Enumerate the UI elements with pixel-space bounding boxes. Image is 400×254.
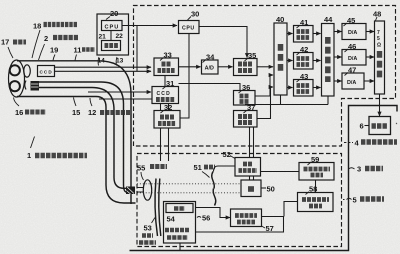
wire 57 to 58 junction: [262, 216, 285, 218]
svg-text:20: 20: [110, 9, 118, 18]
svg-text:17: 17: [1, 38, 9, 47]
dashed enclosure 5 light source unit: [137, 154, 342, 247]
box 36 noise reduction: [234, 91, 256, 106]
svg-text:33: 33: [164, 50, 172, 59]
wire branch down: [136, 26, 138, 72]
svg-text:1: 1: [27, 151, 31, 160]
wire 32 to 31 double: [161, 104, 169, 111]
box 46 D/A: [342, 50, 366, 66]
wire 31 to 36: [179, 84, 241, 91]
svg-text:31: 31: [166, 79, 174, 88]
svg-text:30: 30: [191, 9, 199, 18]
wire 58 to 57: [284, 202, 298, 217]
svg-text:22: 22: [116, 33, 124, 40]
svg-text:D/A: D/A: [348, 30, 357, 36]
optical axis dotted: [137, 183, 241, 185]
svg-text:19: 19: [50, 46, 58, 55]
condenser lens 55: [143, 180, 151, 200]
box 48 75ohm driver: [375, 21, 385, 94]
wire 30 to 35: [199, 27, 247, 58]
box 47 D/A: [342, 73, 364, 89]
svg-text:A/D: A/D: [205, 66, 214, 72]
wire feedback bus 40 44 to 36: [245, 95, 328, 105]
svg-text:21: 21: [99, 34, 107, 41]
svg-text:D/A: D/A: [347, 80, 356, 86]
wire 52 to lamp 50: [250, 176, 254, 180]
lamp box 50: [241, 180, 261, 197]
box 59 brightness control: [299, 163, 334, 181]
svg-text:41: 41: [300, 18, 308, 27]
CCD box: [38, 66, 55, 77]
svg-text:52: 52: [223, 150, 231, 159]
svg-text:3: 3: [357, 165, 361, 174]
box 40 selector: [274, 23, 287, 95]
box 34 A/D: [202, 60, 219, 74]
svg-text:5: 5: [353, 196, 357, 205]
wire 46 to 48: [366, 56, 374, 58]
svg-text:50: 50: [267, 185, 275, 194]
wire 45 to 48: [366, 31, 374, 33]
wire 37 to 40: [257, 87, 273, 119]
wire 44 to 47: [334, 80, 342, 82]
insertion tube inner bend: [17, 97, 136, 204]
wire aperture to 52: [214, 166, 236, 172]
svg-text:CPU: CPU: [105, 24, 120, 30]
wire 32 down to light source: [161, 128, 169, 161]
dashed enclosure 4 signal processing unit: [134, 6, 396, 147]
wire motor to 57: [196, 208, 231, 218]
svg-text:58: 58: [309, 185, 317, 194]
svg-text:45: 45: [347, 16, 355, 25]
wire connector to condenser: [137, 188, 143, 193]
svg-text:CPU: CPU: [182, 26, 195, 32]
insertion tube outer bend: [17, 61, 131, 204]
box 52 aperture control: [235, 158, 261, 177]
wire 44 to 45: [334, 31, 342, 33]
solid boundary line 3: [130, 106, 398, 251]
svg-text:55: 55: [137, 164, 145, 173]
box 42 memory G: [294, 53, 314, 70]
svg-text:35: 35: [248, 51, 256, 60]
svg-text:6: 6: [360, 122, 364, 131]
svg-text:CCD: CCD: [157, 91, 171, 97]
lens ring top: [10, 65, 20, 75]
box 31 CCD drive: [152, 87, 179, 104]
wire CPU to memory: [110, 31, 112, 41]
box 37 correction circuit: [234, 111, 258, 128]
svg-text:11: 11: [74, 46, 82, 55]
light guide end piece: [25, 81, 26, 90]
box 44 matrix circuit: [322, 24, 335, 97]
memory box 22: [102, 41, 121, 51]
svg-text:Ω: Ω: [377, 43, 381, 49]
svg-text:47: 47: [348, 65, 356, 74]
rotary filter 53: [155, 179, 157, 237]
svg-text:D/A: D/A: [348, 56, 357, 62]
svg-text:5: 5: [377, 36, 380, 42]
wire mechanism bottom bus: [196, 217, 284, 232]
box 33 analog processing: [154, 58, 179, 76]
wire 37 to 52: [250, 127, 254, 158]
svg-text:59: 59: [311, 155, 319, 164]
wire 47 to 48: [364, 80, 374, 82]
light guide bundle bar: [31, 81, 40, 91]
CPU box 21: [102, 21, 123, 31]
wire 40 to 43: [287, 87, 293, 89]
svg-text:56: 56: [202, 214, 210, 223]
svg-text:46: 46: [348, 42, 356, 51]
wire 40 to 41: [287, 33, 293, 35]
svg-text:44: 44: [324, 15, 333, 24]
svg-text:43: 43: [300, 72, 308, 81]
box 58 mode switch: [298, 193, 334, 212]
svg-text:53: 53: [144, 224, 152, 233]
box 35 digital processing: [234, 59, 258, 76]
svg-text:2: 2: [44, 34, 48, 43]
speck dot: [396, 123, 397, 124]
svg-text:12: 12: [88, 108, 96, 117]
wire 36 to 40: [255, 75, 273, 96]
wire CCD drive lines to box 31: [88, 91, 151, 93]
box 20 external controller: [97, 14, 129, 55]
wire 41 to 44: [313, 33, 321, 35]
svg-text:15: 15: [72, 108, 80, 117]
filter switching mechanism box: [164, 202, 196, 244]
label 56: [197, 217, 201, 218]
motor box 54: [166, 204, 193, 213]
wire 42 to 44: [313, 60, 321, 62]
wire mechanism to bottom line: [179, 243, 181, 251]
wire 30 down to 32: [181, 34, 190, 119]
light guide connector: [126, 187, 135, 195]
box 30 internal CPU: [179, 21, 200, 34]
box 57 rotary filter control: [231, 209, 262, 227]
svg-text:18: 18: [33, 22, 41, 31]
wire 40 to 42: [287, 60, 293, 62]
wire 31 to 33: [164, 76, 166, 87]
aperture 51: [212, 172, 215, 189]
svg-text:54: 54: [167, 215, 176, 224]
box 32 sensitivity control: [154, 111, 180, 129]
svg-text:36: 36: [242, 83, 250, 92]
wire CCD signal lines 13 14 to box 33: [55, 66, 152, 68]
svg-text:40: 40: [276, 15, 284, 24]
monitor box 6: [369, 117, 391, 135]
endoscope tip ellipse: [9, 60, 25, 97]
objective lens 17: [24, 65, 31, 77]
wire 20 to 30: [122, 25, 177, 27]
wire 59 to 58: [315, 180, 317, 193]
svg-text:16: 16: [15, 108, 23, 117]
box 43 memory B: [294, 80, 314, 97]
wire 48 to monitor 6: [379, 94, 381, 116]
lens ring bottom: [10, 81, 20, 91]
svg-text:13: 13: [116, 58, 124, 65]
wire 35 to 40: [257, 66, 273, 68]
svg-text:34: 34: [206, 52, 215, 61]
svg-text:51: 51: [194, 163, 202, 172]
wire 59 to 52: [261, 171, 300, 173]
wire 33 to 34: [179, 66, 201, 68]
wire 43 to 44: [313, 87, 321, 89]
svg-text:42: 42: [300, 45, 308, 54]
wire 34 to 35: [218, 66, 233, 68]
wire 44 to 46: [334, 56, 342, 58]
box 45 D/A: [342, 24, 366, 40]
light guide line bend b: [39, 88, 127, 189]
box 41 memory R: [294, 26, 314, 43]
light guide line bend a: [39, 82, 127, 192]
svg-text:CCD: CCD: [40, 70, 53, 75]
